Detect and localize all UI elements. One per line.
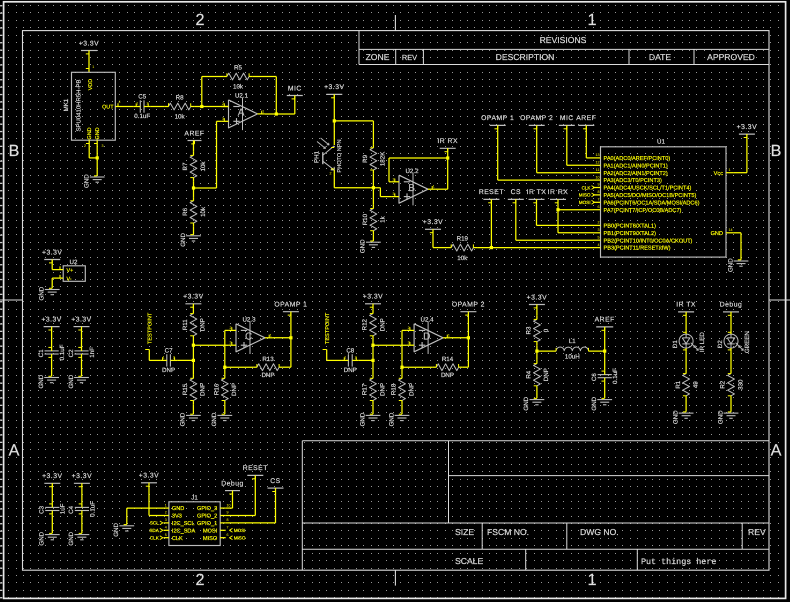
svg-text:+3.3V: +3.3V [42,249,62,256]
op-amp power unit U2 [63,266,85,282]
svg-text:SIZE: SIZE [455,527,474,537]
wire R9 top lead [372,121,374,144]
wire output [272,337,291,339]
svg-text:330: 330 [737,379,744,390]
power flag +3.3V (R12) [365,303,381,305]
resistor R10 1k [372,188,374,205]
svg-text:2: 2 [195,571,204,589]
svg-text:U2.2: U2.2 [405,168,419,175]
svg-text:7: 7 [598,198,600,202]
wire [730,312,732,331]
arrow label SCL [160,521,163,525]
svg-text:GND: GND [68,531,75,545]
svg-text:3: 3 [408,341,410,345]
wire 3V3 [148,483,150,516]
net flag IR TX (LED) [678,311,694,313]
net flag MIC [287,95,303,97]
capacitor C6 0.1uF [598,374,612,376]
svg-text:4: 4 [598,243,600,247]
svg-text:OPAMP 1: OPAMP 1 [274,302,307,309]
svg-text:V-: V- [67,276,72,282]
svg-text:PB1(PCINT9/XTAL2): PB1(PCINT9/XTAL2) [604,230,657,237]
svg-text:2: 2 [230,326,232,330]
svg-text:PA6(PCINT6/OC1A/SDA/MOSI/ADC6): PA6(PCINT6/OC1A/SDA/MOSI/ADC6) [604,199,700,206]
svg-text:TESTPOINT: TESTPOINT [147,312,153,344]
zone divider tick bottom [394,570,396,585]
wire [372,304,374,310]
svg-text:12: 12 [596,161,600,165]
svg-text:PA0(ADC0/AREF/PCINT0): PA0(ADC0/AREF/PCINT0) [604,155,671,162]
svg-text:B: B [9,142,20,160]
resistor R14 DNP [433,366,437,368]
J1 pin 3 I2C_SCL [164,522,169,524]
U1 pin 13 PA0 [593,157,601,159]
svg-text:GREEN: GREEN [744,331,751,353]
resistor R3 0 [536,316,538,320]
svg-text:PA2(ADC2/AIN1/PCINT2): PA2(ADC2/AIN1/PCINT2) [604,170,668,177]
wire flag down [467,312,469,338]
svg-text:PH1: PH1 [313,150,320,163]
wire [192,304,194,310]
J1 pin 4 I2C_SDA [164,529,169,531]
J1 pin 8 GPIO_1 [220,522,226,524]
wire [224,404,226,414]
wire feedback vertical [201,77,203,107]
svg-text:U2.4: U2.4 [421,316,435,323]
svg-text:FSCM NO.: FSCM NO. [487,527,529,537]
svg-text:1: 1 [163,355,165,359]
svg-text:PA7(PCINT7/ICP/OC0B/ADC7): PA7(PCINT7/ICP/OC0B/ADC7) [604,207,682,214]
svg-text:GND: GND [39,286,46,300]
U1 pin 10 PA3 [593,179,601,181]
svg-text:6: 6 [598,205,600,209]
svg-text:4: 4 [165,526,167,530]
wire +3.3V down [333,94,335,145]
power flag +3.3V (U2) [44,259,60,261]
svg-text:+3.3V: +3.3V [71,316,91,323]
svg-text:CLK: CLK [172,536,183,542]
wire R10 to ground [372,234,374,241]
svg-text:R16: R16 [214,383,221,395]
svg-text:+3.3V: +3.3V [41,316,61,323]
svg-text:PB2(PCINT10/INT0/OC0A/CKOUT): PB2(PCINT10/INT0/OC0A/CKOUT) [604,237,693,244]
svg-text:0.1uF: 0.1uF [89,501,96,517]
ground (U2) [45,289,60,291]
svg-text:C4: C4 [68,505,75,513]
svg-text:RESET: RESET [243,465,268,472]
junction [200,105,203,108]
svg-text:C2: C2 [68,349,75,357]
wire OPAMP1 to PA3 [497,125,499,180]
svg-text:AREF: AREF [184,130,204,137]
net flag AREF (MCU) [578,124,594,126]
J1 pin 2 3V3 [164,515,169,517]
ground (R16) [217,414,232,416]
svg-text:PB0(PCINT8/XTAL1): PB0(PCINT8/XTAL1) [604,223,657,230]
svg-text:AREF: AREF [576,115,596,122]
svg-text:GND: GND [95,127,101,139]
wire cap to column [177,359,193,361]
wire V- [52,277,63,279]
svg-text:R2: R2 [720,380,727,388]
svg-text:DNP: DNP [200,383,207,396]
capacitor C8 DNP [347,354,349,366]
svg-text:6: 6 [227,533,229,537]
U1 pin 3 PB1 [593,232,601,234]
svg-text:DNP: DNP [408,383,415,396]
wire output to MIC [265,113,295,115]
capacitor C4 0.1uF [75,506,89,508]
svg-text:IR LED: IR LED [699,332,706,352]
svg-text:CLK: CLK [582,185,592,190]
svg-text:DNP: DNP [162,367,175,374]
junction [603,350,606,353]
svg-text:DNP: DNP [441,372,454,379]
resistor R16 DNP [224,375,226,379]
svg-text:V+: V+ [67,268,74,274]
resistor R4 DNP [536,351,538,360]
wire R8 to U2.1 minus input [194,106,228,108]
wire OPAMP2 to PA2 [536,125,538,172]
net flag MIC (MCU) [559,124,575,126]
resistor R2 330 [730,370,732,374]
svg-text:MISO: MISO [234,536,246,541]
svg-text:3: 3 [598,228,600,232]
junction [289,336,292,339]
svg-text:2: 2 [355,355,357,359]
wire output [451,337,469,339]
svg-text:CLK: CLK [150,536,160,541]
svg-text:C: C [245,331,252,342]
svg-text:C6: C6 [591,373,598,381]
arrow label MISO [592,193,595,197]
svg-text:Vcc: Vcc [714,171,724,177]
svg-text:I2C_SCL: I2C_SCL [172,521,195,527]
svg-text:GND: GND [717,410,724,424]
ground (C3) [45,534,60,536]
svg-text:9: 9 [598,183,600,187]
power flag +3.3V (PH1) [326,93,342,95]
svg-text:GND: GND [711,231,723,237]
wire to plus input [373,344,407,346]
resistor R17 DNP [372,375,374,379]
svg-text:CS: CS [511,189,521,196]
svg-text:1: 1 [448,333,450,337]
svg-text:3: 3 [393,192,395,196]
svg-text:MISO: MISO [579,193,591,198]
zone divider tick top [394,15,396,31]
power flag +3.3V (U1) [739,133,755,135]
svg-text:R1: R1 [675,380,682,388]
svg-text:+3.3V: +3.3V [527,294,547,301]
svg-text:+3.3V: +3.3V [79,40,99,47]
resistor R7 10k [193,152,195,156]
svg-text:DWG NO.: DWG NO. [580,527,619,537]
junction [333,119,336,122]
title block [301,441,303,570]
ground (C6) [597,399,612,401]
svg-text:10k: 10k [175,114,186,121]
wire junction to plus input [194,187,217,189]
svg-text:R14: R14 [442,356,454,363]
ground (C4) [75,534,90,536]
ground (R18) [395,414,410,416]
svg-text:R5: R5 [234,65,242,72]
svg-text:OPAMP 1: OPAMP 1 [481,115,514,122]
svg-text:1: 1 [729,168,731,172]
svg-text:1nF: 1nF [89,347,96,358]
svg-text:11: 11 [596,168,600,172]
svg-text:0.1uF: 0.1uF [612,368,619,384]
svg-text:2: 2 [408,326,410,330]
net flag Debug (J1) [225,490,240,492]
svg-text:8: 8 [598,190,600,194]
junction [535,350,538,353]
svg-text:182K: 182K [380,151,387,166]
wire to plus input [193,344,228,346]
svg-text:1: 1 [270,333,272,337]
svg-text:+3.3V: +3.3V [423,219,443,226]
wire R7 to junction [193,181,195,197]
svg-text:MIC: MIC [288,85,302,92]
net flag IR RX (U2.2) [440,147,456,149]
MCU U1 [601,147,727,257]
svg-text:R15: R15 [182,383,189,395]
svg-text:2: 2 [598,221,600,225]
net flag IR TX [529,198,545,200]
wire [536,390,538,399]
svg-text:SCALE: SCALE [455,556,483,566]
wire minus loop [225,329,229,331]
svg-text:PHOTO NPN: PHOTO NPN [337,139,343,172]
svg-text:10uH: 10uH [565,354,580,361]
U1 pin 9 PA4 [593,187,601,189]
wire [51,358,53,376]
svg-text:GPIO_3: GPIO_3 [197,506,217,512]
wire [81,327,83,347]
svg-text:+3.3V: +3.3V [363,294,383,301]
U1 pin 4 PB3 [593,247,601,249]
junction [371,344,374,347]
svg-text:1: 1 [92,65,94,69]
arrow label MISO (J1) [230,536,233,540]
MK1 ground pins [88,140,90,158]
net flag RESET (J1) [247,474,263,476]
resistor R5 10k [223,76,227,78]
wire RESET [254,475,256,515]
svg-text:2: 2 [195,11,204,29]
net flag CS [508,198,524,200]
svg-text:SCL: SCL [150,521,159,526]
net flag OPAMP 1 [283,311,299,313]
svg-text:GND: GND [68,374,75,388]
wire to R5 [202,76,223,78]
resistor R13 DNP [253,366,257,368]
svg-text:AREF: AREF [595,317,615,324]
wire feedback to output [462,366,468,368]
svg-text:GND: GND [360,239,367,253]
power flag +3.3V (R19) [425,228,441,230]
svg-text:14: 14 [729,228,733,232]
ground (C1) [44,377,59,379]
svg-text:SPU0410HR5H-PB: SPU0410HR5H-PB [75,79,82,131]
wire [604,382,606,398]
net flag AREF (divider) [188,140,202,142]
svg-text:B: B [771,142,782,160]
svg-text:TESTPOINT: TESTPOINT [325,312,331,344]
junction [96,156,99,159]
wire RESET down [490,199,492,247]
power flag +3.3V (MK1) [81,50,97,52]
power flag +3.3V (C2) [74,326,90,328]
svg-text:ZONE: ZONE [366,52,390,62]
U1 pin 1 Vcc [726,172,733,174]
svg-text:GND: GND [84,174,91,188]
wire R6 to ground [193,227,195,235]
svg-text:+3.3V: +3.3V [324,84,344,91]
ground (R2) [724,412,739,414]
U1 pin 5 PB2 [593,239,601,241]
svg-text:U2: U2 [70,259,78,266]
wire testpoint to cap [327,359,342,361]
svg-text:5: 5 [165,533,167,537]
svg-text:CS: CS [270,478,280,485]
svg-text:DNP: DNP [344,367,357,374]
wire R9 bottom [372,174,374,188]
wire to feedback resistor [402,366,433,368]
svg-text:13: 13 [596,153,600,157]
svg-text:3: 3 [230,341,232,345]
svg-text:8: 8 [227,518,229,522]
svg-text:GPIO_2: GPIO_2 [197,514,217,520]
svg-text:REV: REV [402,53,417,62]
ground (R15) [186,414,201,416]
svg-text:B: B [408,183,415,194]
svg-text:49: 49 [692,381,699,388]
svg-text:A: A [771,442,782,460]
svg-text:DNP: DNP [379,318,386,331]
svg-text:10k: 10k [200,206,207,217]
svg-text:3: 3 [222,117,224,121]
svg-text:1: 1 [344,355,346,359]
U1 pin 12 PA1 [593,164,601,166]
svg-text:1: 1 [165,503,167,507]
svg-text:IR RX: IR RX [548,189,569,196]
svg-text:2: 2 [147,102,149,106]
svg-text:IR TX: IR TX [676,302,696,309]
capacitor C1 0.1uF [45,350,59,352]
svg-text:PA4(ADC4/USCK/SCL/T1/PCINT4): PA4(ADC4/USCK/SCL/T1/PCINT4) [604,185,692,192]
resistor R19 10k [448,247,452,249]
svg-text:C5: C5 [138,94,146,101]
svg-text:9: 9 [227,511,229,515]
connector J1 [169,502,220,546]
wire to C6 [604,351,606,370]
svg-text:10: 10 [596,175,600,179]
svg-text:MOSI: MOSI [579,200,591,205]
resistor R18 DNP [401,375,403,379]
svg-text:1k: 1k [380,215,387,222]
wire [730,400,732,412]
microphone MK1 SPU0410HR5H-PB [72,72,116,140]
svg-text:10k: 10k [200,161,207,172]
svg-text:GND: GND [180,412,187,426]
wire column [192,340,194,375]
svg-text:C7: C7 [165,347,173,354]
power flag +3.3V (J1) [141,482,157,484]
svg-text:1: 1 [262,109,264,113]
svg-text:0.1uF: 0.1uF [134,113,150,120]
svg-text:R8: R8 [176,95,184,102]
svg-text:GND: GND [180,233,187,247]
wire bottom rail [334,187,380,189]
wire Debug [232,491,234,509]
resistor R6 10k [193,197,195,201]
svg-text:GND: GND [38,374,45,388]
svg-text:MISO: MISO [203,536,218,542]
J1 pin 1 GND [164,507,169,509]
svg-text:10: 10 [227,503,231,507]
svg-text:GND: GND [359,412,366,426]
junction [400,366,403,369]
op-amp U2.3 [236,324,265,352]
op-amp U2.1 [229,100,258,128]
wire [536,345,538,351]
net flag OPAMP 1 (MCU) [490,124,506,126]
ground (U1) [734,260,749,262]
inductor L1 10uH [556,347,588,351]
junction [192,359,195,362]
svg-text:2: 2 [222,102,224,106]
op-amp U2.2 [399,175,428,203]
wire [192,404,194,414]
svg-text:DNP: DNP [261,372,274,379]
junction [467,336,470,339]
svg-text:DNP: DNP [543,368,550,381]
svg-text:Debug: Debug [221,480,244,487]
wire flag down [290,312,292,338]
net flag AREF (L1) [596,326,613,328]
svg-text:RESET: RESET [479,189,504,196]
svg-text:1: 1 [433,185,435,189]
J1 pin 7 MOSI [220,529,226,531]
arrow label MOSI (J1) [230,528,233,532]
svg-text:2: 2 [393,177,395,181]
ground (R6) [186,235,201,237]
wire L1 to AREF [589,350,605,352]
junction [275,112,278,115]
arrow label CLK [592,186,595,190]
op-amp U2.4 [414,324,443,352]
svg-text:OUT: OUT [102,105,114,111]
wire to plus input [379,188,381,197]
svg-text:R17: R17 [362,383,369,395]
junction [371,359,374,362]
svg-text:GND: GND [591,396,598,410]
J1 pin 10 GPIO_3 [220,507,226,509]
wire minus feedback [389,181,392,183]
svg-text:DNP: DNP [200,318,207,331]
svg-text:A: A [238,108,245,119]
wire AREF down [604,327,606,351]
svg-text:GND: GND [388,412,395,426]
U1 pin 7 PA6 [593,201,601,203]
zone divider tick left [0,299,23,301]
pin 4 OUT stub [115,106,121,108]
resistor R8 10k [165,106,169,108]
svg-text:R19: R19 [457,236,469,243]
wire CS [275,488,277,523]
